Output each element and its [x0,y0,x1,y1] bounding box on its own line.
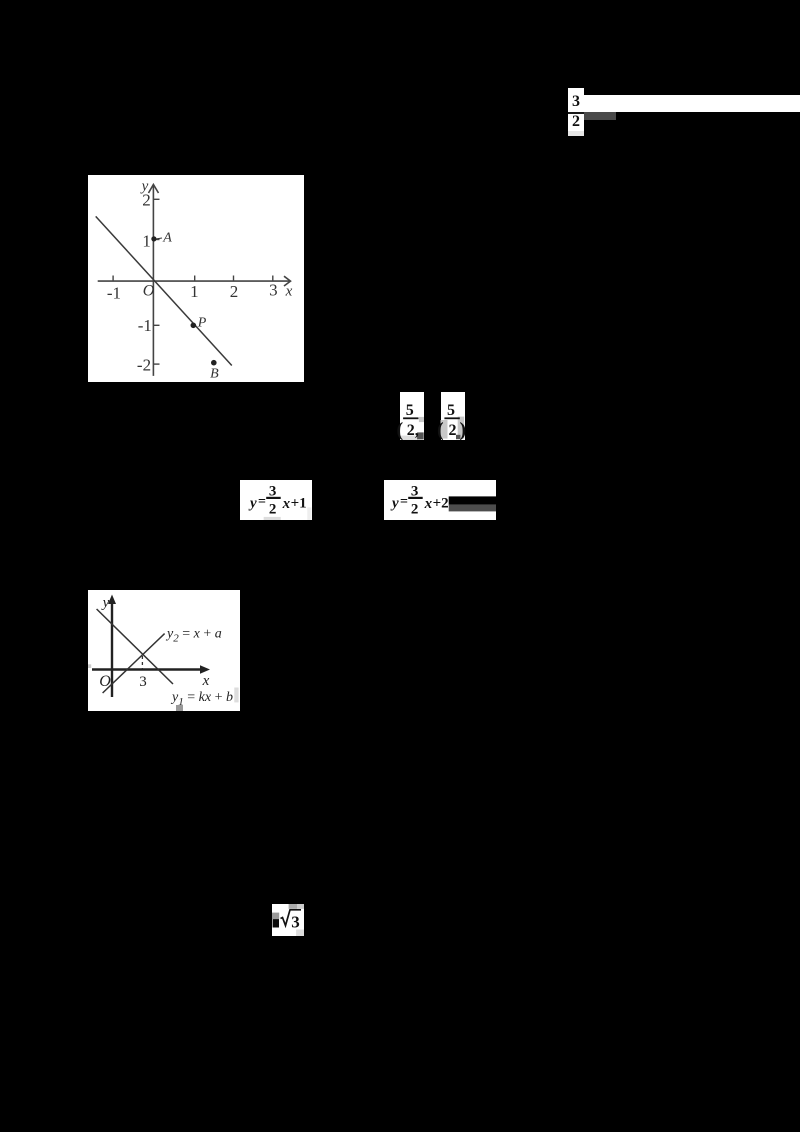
point A dot [151,236,156,241]
box2 left light gray column [441,420,448,439]
left gray square [272,912,279,919]
svg-text:1: 1 [142,232,151,251]
svg-text:): ) [460,419,467,440]
fraction bar [266,496,281,498]
line through origin slope -1 [96,216,232,365]
equation y=3/2x+1 highlight box [240,480,312,520]
top gray patches [288,904,296,909]
tick from A dot to label [157,237,163,240]
box1 light gray patch right [419,417,424,422]
x ticks [112,276,114,282]
line y1=kx+b (descending) [97,609,173,684]
y-axis arrowhead [149,185,159,194]
fraction bar box1 [403,417,418,419]
y ticks [153,198,159,200]
svg-text:2: 2 [407,422,415,439]
dashed drop from intersection [141,656,143,669]
svg-text:+2: +2 [433,495,449,511]
svg-text:5: 5 [447,402,455,419]
svg-text:=: = [400,494,408,509]
svg-text:2: 2 [411,501,419,517]
y-axis [152,185,154,376]
light gray column right of b [234,688,238,703]
svg-text:+1: +1 [291,495,307,511]
box2 right light gray column [458,417,465,439]
svg-text:B: B [210,366,219,381]
gray square bottom [176,705,183,711]
bottom right light square [296,929,304,936]
dark gray bar under highlight [584,112,616,120]
x-axis [98,280,290,282]
svg-text:y: y [101,595,110,611]
svg-text:O: O [99,673,111,690]
svg-text:x: x [285,284,293,300]
svg-text:1: 1 [190,282,199,301]
box1 bottom light strip [401,436,418,440]
svg-text:2: 2 [269,501,277,517]
fraction bar box2 [444,417,459,419]
right bottom light patch [307,507,311,520]
svg-text:x: x [202,673,210,689]
line y2=x+a (ascending) [103,634,165,693]
svg-text:2: 2 [449,422,457,439]
svg-text:y: y [248,495,257,511]
graph 1 image (coordinate plane with line through A(0,1) area, P, B) [88,175,304,382]
svg-text:A: A [162,231,172,246]
svg-text:-2: -2 [137,355,151,374]
fraction 3/2 bar [568,112,584,114]
equation y=3/2x+2 highlight box [384,480,496,520]
(5/2, 5/2) highlight box 2 [441,392,465,440]
point B dot [211,360,217,366]
svg-text:-1: -1 [138,316,152,335]
box2 dark square bottom [456,435,460,439]
svg-text:2: 2 [142,191,151,210]
small light notch at left edge [88,664,91,668]
svg-text:3: 3 [269,281,278,300]
svg-text:(: ( [437,419,444,440]
svg-text:3: 3 [139,674,147,690]
svg-text:3: 3 [291,912,300,931]
long white highlight bar to right edge [584,95,800,112]
svg-text:2: 2 [230,282,239,301]
sqrt(3) highlight box [272,904,304,936]
svg-text:y2 = x + a: y2 = x + a [165,627,222,645]
fraction 3/2 denominator 2 [568,115,584,129]
svg-text:5: 5 [406,402,414,419]
bottom light strip [264,516,281,519]
(5/2, 5/2) highlight box 1 [400,392,424,440]
svg-text:x: x [424,496,433,512]
svg-text:(: ( [397,419,404,440]
sqrt radical sign [280,910,301,926]
svg-text:=: = [258,494,266,509]
x-axis arrowhead [284,276,291,286]
svg-text:O: O [143,283,155,300]
box1 dark gray square bottom right [417,432,424,439]
fraction 3/2 numerator 3 [568,95,584,109]
dark gray strip after +2 [449,504,496,511]
fraction bar [408,496,423,498]
fraction 3/2 highlight box (top right) [568,88,584,136]
fraction 3/2 bottom light strip [568,131,584,136]
y-axis filled arrowhead [108,595,116,605]
graph 2 image (two crossing lines y1=kx+b, y2=x+a) [88,590,240,711]
black strip after +2 [449,496,496,504]
x-axis [92,668,202,670]
svg-text:-1: -1 [107,284,121,303]
point P dot [191,323,197,329]
svg-text:x: x [282,496,291,512]
svg-text:,: , [415,423,419,440]
svg-text:y: y [390,495,399,511]
y-axis [111,598,113,697]
partial black glyph left [272,919,278,927]
x-axis filled arrowhead [200,665,210,674]
svg-text:P: P [197,316,207,331]
